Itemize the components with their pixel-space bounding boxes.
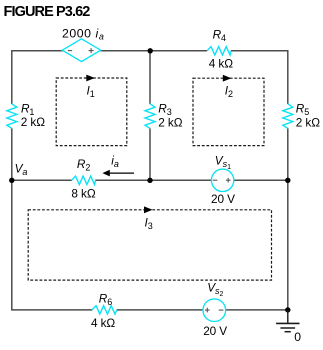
mesh I3 arrow: [144, 206, 153, 213]
svg-text:I3: I3: [145, 215, 153, 231]
svg-text:2 kΩ: 2 kΩ: [158, 115, 182, 129]
svg-text:R4: R4: [213, 28, 226, 44]
svg-text:0: 0: [294, 330, 301, 344]
label R6: [99, 291, 112, 307]
node junction top-middle: [148, 48, 153, 53]
mesh label I2: [225, 84, 233, 100]
wire left column upper (top corner to R1): [11, 50, 13, 104]
value 4 kOhm (R6): [91, 316, 115, 330]
svg-text:I2: I2: [225, 84, 233, 100]
wire middle column lower (R3 to middle node): [149, 128, 151, 180]
wire middle-row center (R2 to source Vs1): [95, 179, 211, 181]
mesh label I3: [145, 215, 153, 231]
node junction middle: [147, 178, 152, 183]
label Vs2: [207, 281, 223, 299]
wire bottom-center (R6 to source Vs2): [117, 309, 204, 311]
resistor R5: [283, 104, 293, 129]
wire right column lower (R5 to bottom corner): [287, 128, 289, 310]
label R2: [77, 157, 90, 173]
label R1: [21, 101, 34, 117]
wire top-right (R4 to right column): [231, 50, 289, 52]
svg-text:2 kΩ: 2 kΩ: [21, 115, 45, 129]
wire right column upper (top corner to R5): [287, 50, 289, 104]
resistor R3: [145, 104, 155, 129]
svg-text:I1: I1: [87, 84, 95, 100]
current label ia: [111, 154, 119, 170]
resistor R2: [72, 176, 96, 184]
wire middle-row left (node Va to R2): [12, 179, 72, 181]
wire middle column upper (top node to R3): [149, 51, 151, 104]
svg-text:4 kΩ: 4 kΩ: [209, 56, 233, 70]
current ia arrow: [102, 170, 134, 177]
value 20 V (Vs2): [203, 324, 227, 338]
svg-text:2000 ia: 2000 ia: [62, 26, 104, 41]
label R5: [296, 102, 309, 118]
svg-text:8 kΩ: 8 kΩ: [71, 187, 95, 201]
wire bottom-left (left column to R6): [12, 309, 92, 311]
value 8 kOhm (R2): [71, 187, 95, 201]
node Va junction: [9, 178, 14, 183]
node junction middle-right: [285, 178, 290, 183]
mesh I1 arrow: [86, 75, 95, 82]
value 20 V (Vs1): [211, 192, 235, 206]
svg-text:Va: Va: [15, 161, 28, 177]
mesh I2 arrow: [223, 75, 232, 82]
mesh I3 dashed loop: [28, 210, 271, 280]
wire left column lower (R1 to bottom corner): [11, 128, 13, 310]
value label 2000 ia: [62, 26, 104, 41]
svg-text:ia: ia: [111, 154, 119, 170]
resistor R6: [92, 306, 117, 314]
svg-text:20 V: 20 V: [203, 324, 227, 338]
voltage source Vs2: [203, 299, 226, 322]
svg-text:R6: R6: [99, 291, 112, 307]
svg-text:FIGURE P3.62: FIGURE P3.62: [4, 4, 91, 20]
label R4: [213, 28, 226, 44]
voltage source Vs1: [211, 169, 233, 191]
svg-text:20 V: 20 V: [211, 192, 235, 206]
value 4 kOhm (R4): [209, 56, 233, 70]
label Vs1: [215, 153, 231, 171]
wire top-middle (dependent source to R4): [101, 50, 208, 52]
node junction bottom-right (ground node): [285, 307, 290, 312]
resistor R4: [207, 47, 231, 55]
resistor R1: [7, 104, 17, 129]
wire top-left (node Va column top to dependent source): [12, 50, 63, 52]
title FIGURE P3.62: [4, 4, 91, 20]
mesh I2 dashed loop: [193, 78, 264, 145]
svg-text:Vs1: Vs1: [215, 153, 231, 171]
mesh I1 dashed loop: [56, 78, 127, 146]
svg-text:R2: R2: [77, 157, 90, 173]
label R3: [158, 102, 171, 118]
value 2 kOhm (R1): [21, 115, 45, 129]
mesh label I1: [87, 84, 95, 100]
ground: [276, 310, 299, 332]
wire middle-row right (Vs1 to right column): [234, 179, 288, 181]
svg-text:4 kΩ: 4 kΩ: [91, 316, 115, 330]
svg-text:Vs2: Vs2: [207, 281, 223, 299]
wire bottom-right (Vs2 to ground node): [226, 309, 288, 311]
node label 0 (ground reference): [294, 330, 301, 344]
svg-text:2 kΩ: 2 kΩ: [296, 115, 320, 129]
value 2 kOhm (R3): [158, 115, 182, 129]
dependent source 2000ia (diamond): [62, 39, 100, 62]
value 2 kOhm (R5): [296, 115, 320, 129]
node label Va: [15, 161, 28, 177]
